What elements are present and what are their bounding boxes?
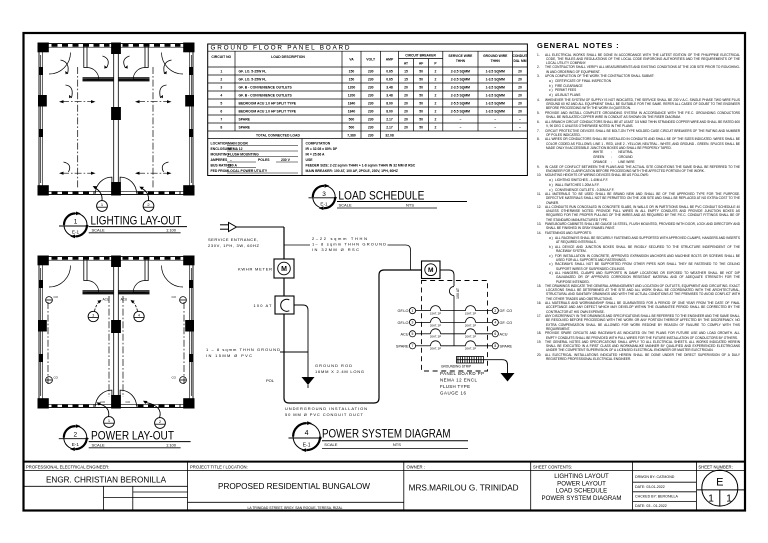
svg-text:–: – xyxy=(494,126,496,130)
svg-text:1-3.5 SQMM: 1-3.5 SQMM xyxy=(486,78,505,82)
svg-text:1: 1 xyxy=(726,494,732,505)
lighting corner door arc left xyxy=(49,53,71,75)
svg-text:100 A: 100 A xyxy=(228,164,237,168)
svg-text:1:100: 1:100 xyxy=(166,227,177,232)
svg-text:FED FROM: FED FROM xyxy=(211,169,229,173)
svg-text:BEDROOM ACU 1.0 HP SPLIT TYPE: BEDROOM ACU 1.0 HP SPLIT TYPE xyxy=(239,102,297,106)
svg-text:IN 15MM Ø PVC: IN 15MM Ø PVC xyxy=(206,353,252,358)
power ACU outlet right xyxy=(134,311,144,321)
power homerun dash center right xyxy=(122,296,124,397)
svg-text:NEMA 12: NEMA 12 xyxy=(228,147,243,151)
svg-text:1200: 1200 xyxy=(348,86,356,90)
svg-text:FLUSH TYPE: FLUSH TYPE xyxy=(440,384,470,389)
panel ground symbol xyxy=(501,373,515,382)
wire feeder label right segment xyxy=(388,245,411,270)
svg-text:GROUNDING STRIP: GROUNDING STRIP xyxy=(441,365,471,369)
svg-text:20AT, 2P: 20AT, 2P xyxy=(430,335,441,339)
PANEL-INFO-UNDERLINES xyxy=(227,146,298,174)
svg-text:15: 15 xyxy=(404,70,408,74)
power bath door arc left xyxy=(87,281,99,293)
svg-text:20: 20 xyxy=(404,86,408,90)
svg-text:1: 1 xyxy=(101,202,104,207)
svg-text:ENGR. CHRISTIAN BERONILLA: ENGR. CHRISTIAN BERONILLA xyxy=(46,476,167,485)
lighting window blocks xyxy=(39,67,193,137)
svg-text:PROFESSIONAL ELECTRICAL ENGINE: PROFESSIONAL ELECTRICAL ENGINEER: xyxy=(26,464,109,469)
ground rod symbol xyxy=(302,377,315,388)
svg-text:CO: CO xyxy=(126,400,131,404)
svg-text:SCALE: SCALE xyxy=(92,227,105,232)
lighting entry door right arc xyxy=(120,177,137,194)
svg-text:100 AT: 100 AT xyxy=(456,287,460,299)
svg-text:1– 8 sqmm THHN GROUND: 1– 8 sqmm THHN GROUND xyxy=(312,242,386,247)
POWER-PLAN xyxy=(38,256,195,429)
svg-text:20AT, 2P: 20AT, 2P xyxy=(430,347,441,351)
svg-text:DATE: 03-01-2022: DATE: 03-01-2022 xyxy=(635,485,665,489)
svg-text:GROUND WIRE: GROUND WIRE xyxy=(483,54,508,58)
svg-text:2-3.5 SQMM: 2-3.5 SQMM xyxy=(451,86,470,90)
svg-text:20AT, 2P: 20AT, 2P xyxy=(465,323,476,327)
lighting leader lower-left xyxy=(64,162,70,172)
svg-text:CO: CO xyxy=(101,400,106,404)
svg-text:7: 7 xyxy=(412,344,414,348)
svg-text:4: 4 xyxy=(305,430,309,437)
power corner columns xyxy=(38,256,195,409)
power homerun dash left wall xyxy=(47,302,49,384)
service entrance label xyxy=(208,237,260,248)
svg-text:2-5.5 SQMM: 2-5.5 SQMM xyxy=(451,102,470,106)
lighting centerline horiz right upper xyxy=(135,100,172,103)
svg-text:DRWGN BY: CATMOND: DRWGN BY: CATMOND xyxy=(635,475,675,479)
svg-text:20: 20 xyxy=(404,126,408,130)
svg-text:VA: VA xyxy=(349,58,354,62)
PANEL-INFO-BOX xyxy=(211,142,416,174)
svg-text:PROJECT TITLE / LOCATION:: PROJECT TITLE / LOCATION: xyxy=(190,464,248,469)
svg-text:M: M xyxy=(281,266,287,273)
right small rows xyxy=(633,481,697,483)
kwhr meter xyxy=(274,259,294,278)
svg-text:VOLT: VOLT xyxy=(366,58,376,62)
lighting fixture leader top-left xyxy=(61,60,69,74)
svg-text:3.48: 3.48 xyxy=(386,86,393,90)
LIGHTING-PLAN-TITLE xyxy=(59,212,187,239)
svg-text:BEDROOM ACU 1.0 HP SPLIT TYPE: BEDROOM ACU 1.0 HP SPLIT TYPE xyxy=(239,110,297,114)
lighting leader lower-right xyxy=(162,162,168,172)
svg-text:7,380: 7,380 xyxy=(347,134,356,138)
lighting bath door arc right xyxy=(133,68,145,80)
svg-text:CO: CO xyxy=(172,376,177,380)
breaker header split xyxy=(399,58,443,60)
svg-text:50: 50 xyxy=(419,70,423,74)
svg-text:NTS: NTS xyxy=(406,202,414,207)
svg-text:MAIN BREAKER: 100 AT, 100 AF,: MAIN BREAKER: 100 AT, 100 AF, 2POLE, 230… xyxy=(306,169,398,173)
lighting window glazing xyxy=(41,55,192,183)
svg-text:SPARE: SPARE xyxy=(239,126,251,130)
power homerun dash right wall xyxy=(183,302,185,384)
svg-text:2: 2 xyxy=(435,110,437,114)
power mid columns xyxy=(38,256,194,409)
svg-text:SPARE: SPARE xyxy=(239,118,251,122)
power wall outlet bottom-right xyxy=(172,376,187,384)
lighting corner door arc right xyxy=(162,53,184,75)
svg-text:2: 2 xyxy=(435,126,437,130)
main breaker 100AT xyxy=(275,296,294,314)
svg-text:FLUSH MOUNTING: FLUSH MOUNTING xyxy=(228,153,259,157)
svg-text:3: 3 xyxy=(412,321,414,325)
lighting homerun outlet 1 xyxy=(97,201,108,212)
svg-text:20AT, 2P: 20AT, 2P xyxy=(430,323,441,327)
wire ground junction xyxy=(280,351,308,353)
svg-text:IN 32MM Ø RSC: IN 32MM Ø RSC xyxy=(312,247,359,252)
svg-text:MOUNTING: MOUNTING xyxy=(211,153,230,157)
power homerun outlet 1 xyxy=(104,417,115,428)
svg-text:230: 230 xyxy=(368,118,374,122)
svg-text:4: 4 xyxy=(138,314,140,318)
svg-text:50: 50 xyxy=(419,118,423,122)
svg-text:3: 3 xyxy=(322,191,326,198)
grounding strip xyxy=(457,357,484,364)
lighting bathroom partition right xyxy=(118,46,149,81)
svg-text:150: 150 xyxy=(349,70,355,74)
svg-text:CIRCUIT NO: CIRCUIT NO xyxy=(211,55,231,59)
svg-text:1 – 8 sqmm THHN GROUND: 1 – 8 sqmm THHN GROUND xyxy=(206,347,280,352)
engineer cell subgrid xyxy=(24,485,188,487)
svg-text:AMPERES: AMPERES xyxy=(211,158,229,162)
svg-text:E-1: E-1 xyxy=(303,442,311,448)
lighting fixture leader bath-right xyxy=(124,56,130,68)
svg-text:2–22 sqmm THHN: 2–22 sqmm THHN xyxy=(312,236,367,241)
LOAD-SCHEDULE-TITLE xyxy=(309,184,468,210)
PANEL-BOARD-TABLE xyxy=(208,44,528,176)
svg-text:E-1: E-1 xyxy=(72,230,80,235)
svg-text:0.65: 0.65 xyxy=(386,78,393,82)
ground rod label xyxy=(315,363,364,374)
circuit row 7-8 xyxy=(396,341,513,351)
svg-text:1-3.5 SQMM: 1-3.5 SQMM xyxy=(486,102,505,106)
svg-text:ACU: ACU xyxy=(500,332,508,336)
TITLE-BLOCK-TEXT xyxy=(26,464,733,510)
svg-text:230: 230 xyxy=(368,134,374,138)
svg-text:NTS: NTS xyxy=(393,442,401,447)
svg-text:230V, 1PH, 3W, 60HZ: 230V, 1PH, 3W, 60HZ xyxy=(208,243,260,248)
power window blocks xyxy=(39,280,193,362)
PANEL-BOARD-TABLE-TEXT xyxy=(211,45,528,66)
svg-text:2: 2 xyxy=(494,309,496,313)
svg-text:230: 230 xyxy=(368,110,374,114)
svg-text:8.00: 8.00 xyxy=(386,110,393,114)
svg-text:POWER LAYOUT: POWER LAYOUT xyxy=(557,480,606,487)
svg-text:5: 5 xyxy=(220,102,222,106)
svg-text:ACU: ACU xyxy=(103,298,110,302)
svg-text:1: 1 xyxy=(220,70,222,74)
svg-text:PROPOSED RESIDENTIAL BUNG: PROPOSED RESIDENTIAL BUNGALOW xyxy=(218,482,370,491)
svg-text:P: P xyxy=(434,62,437,66)
svg-text:THHN: THHN xyxy=(491,59,501,63)
svg-text:GF. B - CONVENIENCE OUTLETS: GF. B - CONVENIENCE OUTLETS xyxy=(239,86,293,90)
svg-text:E: E xyxy=(716,477,723,489)
svg-text:–: – xyxy=(459,118,461,122)
lighting centerline vertical right unit xyxy=(152,67,154,189)
svg-text:MAIN DOOR: MAIN DOOR xyxy=(228,142,248,146)
svg-text:20: 20 xyxy=(404,94,408,98)
svg-text:NEMA 12 ENCL: NEMA 12 ENCL xyxy=(440,378,478,383)
svg-text:SERVICE WIRE: SERVICE WIRE xyxy=(448,54,473,58)
svg-text:COMPUTATION: COMPUTATION xyxy=(306,142,331,146)
power entry door left arc xyxy=(95,390,112,407)
svg-text:DATE: 03 - 01-2022: DATE: 03 - 01-2022 xyxy=(635,504,667,508)
svg-text:GF. LO. 5-25W FL: GF. LO. 5-25W FL xyxy=(239,78,267,82)
svg-text:15AT, 2P: 15AT, 2P xyxy=(430,312,441,316)
lighting switch leader mid-left xyxy=(66,85,73,98)
svg-text:7: 7 xyxy=(220,118,222,122)
svg-text:2: 2 xyxy=(435,70,437,74)
svg-text:SHEET NUMBER:: SHEET NUMBER: xyxy=(698,464,732,469)
header bottom xyxy=(208,66,528,68)
svg-text:POL: POL xyxy=(266,378,275,383)
svg-text:GF. CO: GF. CO xyxy=(500,309,513,313)
svg-text:LOCATION: LOCATION xyxy=(211,142,229,146)
svg-text:POLES: POLES xyxy=(258,158,270,162)
PANEL-BOARD-ROWS xyxy=(220,70,522,138)
svg-text:SCALE: SCALE xyxy=(339,202,352,207)
svg-text:1200: 1200 xyxy=(348,94,356,98)
column lines xyxy=(234,51,236,131)
svg-text:2: 2 xyxy=(435,102,437,106)
svg-text:2-5.5 SQMM: 2-5.5 SQMM xyxy=(451,110,470,114)
svg-text:1-3.5 SQMM: 1-3.5 SQMM xyxy=(486,94,505,98)
svg-text:ACU: ACU xyxy=(400,332,408,336)
svg-text:CO: CO xyxy=(54,295,59,299)
svg-text:IR = 32.08 x 80% DF: IR = 32.08 x 80% DF xyxy=(306,147,338,151)
svg-text:LOAD DESCRIPTION: LOAD DESCRIPTION xyxy=(271,55,305,59)
lighting centerline horiz left upper xyxy=(59,100,96,103)
lighting party wall xyxy=(114,43,119,195)
svg-text:50: 50 xyxy=(419,94,423,98)
circuit row 1-2 xyxy=(398,306,513,316)
svg-text:2: 2 xyxy=(435,118,437,122)
POWER-SYSTEM-TITLE xyxy=(289,421,469,452)
lighting wall hatch xyxy=(52,45,181,192)
svg-text:OWNER :: OWNER : xyxy=(407,464,425,469)
svg-text:2: 2 xyxy=(147,202,150,207)
svg-text:6: 6 xyxy=(494,332,496,336)
svg-text:2: 2 xyxy=(435,94,437,98)
power wall outlet bottom-left xyxy=(46,376,59,384)
power wall outlet right xyxy=(172,295,187,303)
svg-text:4: 4 xyxy=(494,321,496,325)
svg-text:KWHR METER: KWHR METER xyxy=(238,267,272,272)
svg-text:15: 15 xyxy=(404,78,408,82)
panel main breaker arc xyxy=(449,287,454,296)
svg-text:20: 20 xyxy=(518,110,522,114)
svg-text:50: 50 xyxy=(419,110,423,114)
power outer wall xyxy=(39,257,193,408)
bottom info box divider xyxy=(301,139,303,176)
svg-text:2: 2 xyxy=(435,78,437,82)
circuit row 5-6 xyxy=(400,329,507,339)
svg-text:DIA. MM: DIA. MM xyxy=(513,59,526,63)
svg-text:SERVICE ENTRANCE,: SERVICE ENTRANCE, xyxy=(208,237,258,242)
panel bus vertical xyxy=(453,296,455,346)
svg-text:M: M xyxy=(428,267,434,274)
wire strip to ground xyxy=(484,360,508,373)
svg-text:1-3.5 SQMM: 1-3.5 SQMM xyxy=(486,110,505,114)
svg-text:3: 3 xyxy=(220,86,222,90)
lighting fixture leader top-right xyxy=(164,60,172,74)
svg-text:LIGHTING LAY-OUT: LIGHTING LAY-OUT xyxy=(91,214,182,228)
svg-text:GF.LO: GF.LO xyxy=(398,321,409,325)
svg-text:GAUGE 16: GAUGE 16 xyxy=(440,391,467,396)
power homerun outlet 2 xyxy=(155,418,166,429)
svg-text:230 V: 230 V xyxy=(281,158,291,162)
svg-text:1:100: 1:100 xyxy=(166,442,177,447)
power wall hatch xyxy=(52,258,181,405)
svg-text:1: 1 xyxy=(412,309,414,313)
svg-text:2-3.5 SQMM: 2-3.5 SQMM xyxy=(451,70,470,74)
panel enclosure dashed xyxy=(422,281,488,372)
svg-text:–: – xyxy=(459,126,461,130)
svg-text:SHEET CONTENTS:: SHEET CONTENTS: xyxy=(533,464,572,469)
svg-text:1-3.5 SQMM: 1-3.5 SQMM xyxy=(486,70,505,74)
lighting fixture leader bath-left xyxy=(103,56,109,68)
lighting centerline horiz left lower xyxy=(59,172,96,175)
lighting homerun outlet 2 xyxy=(143,201,154,212)
svg-text:GROUND ROD: GROUND ROD xyxy=(315,363,352,368)
GENERAL-NOTES xyxy=(537,41,740,363)
ground wire label xyxy=(206,347,280,358)
svg-text:CO: CO xyxy=(172,295,177,299)
svg-text:1840: 1840 xyxy=(348,102,356,106)
svg-text:CIRCUIT BREAKER: CIRCUIT BREAKER xyxy=(405,54,436,58)
svg-text:MRS.MARILOU G. TRINIDAD: MRS.MARILOU G. TRINIDAD xyxy=(409,484,519,493)
POWER-SYSTEM-DIAGRAM xyxy=(206,223,515,453)
svg-text:3.48: 3.48 xyxy=(386,94,393,98)
svg-text:16MM X 2.4M LONG: 16MM X 2.4M LONG xyxy=(315,369,364,374)
svg-text:GF. LO. 5-25W FL: GF. LO. 5-25W FL xyxy=(239,70,267,74)
svg-text:IR = 25.66 A: IR = 25.66 A xyxy=(306,153,326,157)
svg-text:SCALE: SCALE xyxy=(92,442,105,447)
power homerun dash center left xyxy=(108,296,110,397)
wire feeder label left segment xyxy=(284,244,310,246)
circuit row 3-4 xyxy=(398,317,513,327)
power ACU outlet left xyxy=(88,311,98,321)
svg-text:6: 6 xyxy=(220,110,222,114)
svg-text:LOAD SCHEDULE: LOAD SCHEDULE xyxy=(556,488,607,495)
power corner door arc left xyxy=(49,266,71,288)
svg-text:POWER SYSTEM DIAGRAM: POWER SYSTEM DIAGRAM xyxy=(322,427,451,441)
svg-text:8.00: 8.00 xyxy=(386,102,393,106)
svg-text:50: 50 xyxy=(419,102,423,106)
svg-text:2: 2 xyxy=(73,431,77,438)
svg-text:AF: AF xyxy=(419,62,423,66)
svg-text:2-3.5 SQMM: 2-3.5 SQMM xyxy=(451,94,470,98)
svg-text:POWER LAY-OUT: POWER LAY-OUT xyxy=(91,429,174,443)
svg-text:20AT, 2P: 20AT, 2P xyxy=(465,335,476,339)
svg-text:15AT, 2P: 15AT, 2P xyxy=(465,312,476,316)
svg-text:2: 2 xyxy=(435,86,437,90)
lighting mid columns xyxy=(38,43,194,196)
power corner door arc right xyxy=(162,266,184,288)
svg-text:5: 5 xyxy=(412,332,414,336)
svg-text:50: 50 xyxy=(419,86,423,90)
svg-text:0.65: 0.65 xyxy=(386,70,393,74)
lighting bathroom partition left xyxy=(83,46,114,81)
svg-text:AMP: AMP xyxy=(386,58,394,62)
svg-text:–: – xyxy=(519,126,521,130)
svg-text:AT: AT xyxy=(404,62,408,66)
panel board label xyxy=(440,371,484,396)
svg-text:1: 1 xyxy=(708,494,714,505)
svg-text:50: 50 xyxy=(419,126,423,130)
svg-text:TOTAL CONNECTED LOAD: TOTAL CONNECTED LOAD xyxy=(256,134,300,138)
svg-text:CO: CO xyxy=(54,376,59,380)
svg-text:8: 8 xyxy=(494,344,496,348)
power party wall xyxy=(114,256,119,408)
wire meter to panel breaker xyxy=(440,270,454,286)
svg-text:2: 2 xyxy=(159,419,162,424)
svg-text:230: 230 xyxy=(368,78,374,82)
svg-text:230: 230 xyxy=(368,94,374,98)
svg-text:PANEL BOARD PP: PANEL BOARD PP xyxy=(440,371,484,376)
svg-text:UNDERGROUND INSTALLATION: UNDERGROUND INSTALLATION xyxy=(285,406,367,411)
svg-text:GF. CO: GF. CO xyxy=(500,321,513,325)
svg-text:1: 1 xyxy=(108,418,111,423)
svg-text:100 AT: 100 AT xyxy=(254,303,273,308)
svg-text:CONDUIT: CONDUIT xyxy=(512,54,527,58)
svg-text:GF. B - CONVENIENCE OUTLETS: GF. B - CONVENIENCE OUTLETS xyxy=(239,94,293,98)
svg-text:USE: USE xyxy=(306,158,314,162)
svg-text:20: 20 xyxy=(518,102,522,106)
POWER-PLAN-TITLE xyxy=(59,424,191,451)
TITLE-BLOCK xyxy=(24,462,746,511)
svg-text:20: 20 xyxy=(404,110,408,114)
svg-text:FEEDER SIZE: 2-22 sqmm THHN +: FEEDER SIZE: 2-22 sqmm THHN + 1-8 sqmm T… xyxy=(306,164,416,168)
power ACU leader right xyxy=(132,301,138,311)
lighting entry door left arc xyxy=(95,177,112,194)
lighting homerun hook right xyxy=(141,188,149,201)
power homerun hook bottom-left xyxy=(99,404,109,417)
svg-text:20: 20 xyxy=(518,78,522,82)
svg-text:230: 230 xyxy=(368,126,374,130)
svg-text:20: 20 xyxy=(518,94,522,98)
SHEET-NUMBER-CIRCLE xyxy=(697,470,744,506)
title row line xyxy=(208,50,528,52)
svg-text:8: 8 xyxy=(220,126,222,130)
svg-text:3: 3 xyxy=(92,314,94,318)
svg-text:50 MM Ø PVC CONDUIT DUCT: 50 MM Ø PVC CONDUIT DUCT xyxy=(285,412,364,417)
svg-text:230: 230 xyxy=(368,70,374,74)
svg-text:SCALE: SCALE xyxy=(324,442,337,447)
svg-text:500: 500 xyxy=(349,126,355,130)
svg-text:1: 1 xyxy=(74,219,78,226)
svg-text:–: – xyxy=(519,118,521,122)
svg-text:50: 50 xyxy=(419,78,423,82)
lighting corner columns xyxy=(38,43,195,196)
feeder label xyxy=(312,236,386,252)
underground label xyxy=(285,406,367,417)
lighting bath door arc left xyxy=(87,68,99,80)
svg-text:2: 2 xyxy=(220,78,222,82)
svg-text:–: – xyxy=(494,118,496,122)
svg-text:230: 230 xyxy=(368,102,374,106)
svg-text:500: 500 xyxy=(349,118,355,122)
svg-text:POWER SYSTEM DIAGRAM: POWER SYSTEM DIAGRAM xyxy=(542,495,622,502)
panel kwhr meter xyxy=(422,261,441,279)
svg-text:SPARE: SPARE xyxy=(500,344,513,348)
power window glazing xyxy=(41,268,192,396)
svg-text:20: 20 xyxy=(518,86,522,90)
wire breaker to ground rod xyxy=(294,305,308,377)
svg-text:LOCAL POWER UTILITY: LOCAL POWER UTILITY xyxy=(228,169,268,173)
